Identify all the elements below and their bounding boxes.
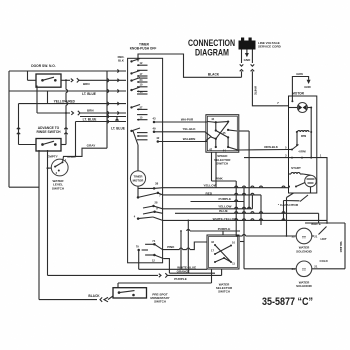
svg-text:* CAPACITOR: * CAPACITOR (278, 203, 299, 207)
svg-text:YELLOW: YELLOW (203, 184, 216, 188)
svg-text:SWITCH: SWITCH (154, 300, 166, 304)
svg-text:17: 17 (211, 249, 214, 253)
svg-text:SWITCH: SWITCH (52, 186, 65, 190)
svg-text:YELLOW-RED: YELLOW-RED (54, 100, 76, 104)
svg-text:GRN: GRN (296, 72, 302, 76)
svg-text:49: 49 (152, 126, 156, 130)
svg-text:21: 21 (314, 234, 318, 238)
svg-text:LT. BLUE: LT. BLUE (111, 127, 125, 131)
svg-text:SWITCH: SWITCH (216, 162, 228, 166)
svg-text:43: 43 (152, 117, 156, 121)
svg-text:BLK: BLK (118, 58, 124, 62)
svg-text:42: 42 (156, 136, 160, 140)
svg-text:PURPLE: PURPLE (218, 227, 231, 231)
svg-text:44: 44 (223, 149, 226, 153)
svg-text:COLD: COLD (320, 259, 328, 263)
svg-text:WHITE: WHITE (254, 86, 258, 95)
svg-text:47: 47 (209, 148, 212, 152)
svg-text:ADVANCE TO: ADVANCE TO (38, 126, 60, 130)
svg-text:MOTOR: MOTOR (292, 92, 305, 96)
svg-text:ORN-BLK: ORN-BLK (264, 145, 279, 149)
svg-text:38: 38 (155, 182, 159, 186)
svg-text:WH-BLK: WH-BLK (339, 242, 343, 253)
svg-text:WH-PUR: WH-PUR (181, 118, 194, 122)
svg-text:BRN: BRN (83, 82, 90, 86)
svg-text:BRN: BRN (87, 109, 94, 113)
svg-text:RINSE SWITCH: RINSE SWITCH (37, 130, 62, 134)
svg-text:PINK: PINK (167, 245, 175, 249)
svg-text:START: START (291, 166, 301, 170)
svg-text:GRAY: GRAY (87, 144, 97, 148)
svg-text:GND: GND (244, 58, 252, 62)
svg-text:MOTOR: MOTOR (133, 178, 145, 182)
svg-text:SOLENOID: SOLENOID (296, 284, 313, 288)
svg-text:TT: TT (302, 235, 306, 239)
svg-text:LT. BLUE: LT. BLUE (82, 92, 96, 96)
svg-text:YEL-BLK: YEL-BLK (183, 127, 197, 131)
svg-text:SOLENOID: SOLENOID (296, 249, 313, 253)
svg-text:LT. BLUE: LT. BLUE (83, 117, 97, 121)
svg-text:10: 10 (232, 241, 235, 245)
svg-text:CONNECTION: CONNECTION (188, 38, 235, 48)
svg-text:35-5877 “C”: 35-5877 “C” (262, 296, 313, 308)
svg-text:PURPLE: PURPLE (219, 197, 232, 201)
svg-text:4 RPM: 4 RPM (298, 151, 305, 154)
svg-text:TT: TT (302, 268, 306, 272)
svg-text:SWITCH: SWITCH (218, 290, 230, 294)
svg-text:WH-BRN: WH-BRN (183, 137, 196, 141)
svg-text:KNOB-PUSH OFF: KNOB-PUSH OFF (130, 47, 157, 51)
svg-text:PURPLE: PURPLE (174, 277, 187, 281)
svg-text:44: 44 (211, 117, 214, 121)
svg-text:21: 21 (314, 264, 318, 268)
svg-text:BLACK: BLACK (88, 294, 100, 298)
svg-text:EMPTY: EMPTY (47, 155, 59, 159)
svg-text:BLUE: BLUE (219, 209, 227, 213)
svg-text:SERVICE CORD: SERVICE CORD (258, 45, 282, 49)
svg-text:GND: GND (304, 85, 310, 89)
svg-text:DOOR SW. N.O.: DOOR SW. N.O. (31, 64, 56, 68)
svg-text:BLACK: BLACK (208, 73, 220, 77)
svg-text:YELLOW: YELLOW (218, 205, 231, 209)
svg-text:42: 42 (211, 240, 214, 244)
svg-text:RPM: RPM (301, 135, 306, 138)
svg-text:DIAGRAM: DIAGRAM (195, 48, 229, 58)
svg-text:HOT: HOT (321, 237, 327, 241)
